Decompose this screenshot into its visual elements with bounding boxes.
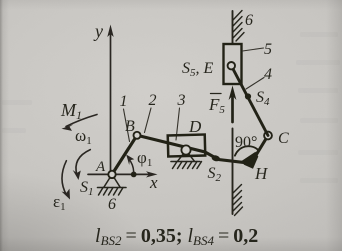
svg-text:C: C — [278, 130, 289, 147]
crank link 1 (A-B) — [112, 135, 137, 174]
dot S2 — [211, 155, 220, 163]
svg-text:y: y — [93, 21, 103, 41]
slider D pin support — [171, 153, 202, 169]
joint B — [134, 132, 141, 139]
dot on x-axis — [131, 172, 137, 178]
epsilon1 arrow — [62, 161, 71, 200]
svg-text:5: 5 — [264, 41, 272, 58]
label F5 — [208, 94, 225, 117]
bleedthrough smudges — [2, 32, 340, 183]
angle phi1 arc — [126, 155, 134, 173]
leader label 4 — [246, 78, 264, 90]
top guide wall 6 — [233, 11, 245, 45]
svg-text:1: 1 — [120, 93, 128, 110]
svg-text:H: H — [254, 164, 269, 183]
svg-text:90°: 90° — [235, 134, 257, 151]
joint E — [228, 62, 235, 69]
moment M1 arrow — [62, 115, 98, 131]
leader label 5 — [243, 48, 264, 51]
joint C — [264, 132, 272, 140]
link H-C — [251, 136, 268, 164]
link 4 (E-C) — [231, 66, 268, 136]
svg-text:2: 2 — [149, 92, 157, 109]
svg-text:D: D — [188, 117, 202, 136]
svg-text:B: B — [125, 118, 135, 135]
y-axis — [107, 25, 113, 176]
svg-text:4: 4 — [264, 66, 272, 83]
svg-text:x: x — [149, 173, 158, 192]
svg-text:6: 6 — [245, 12, 253, 29]
dot S4 — [245, 93, 251, 99]
right-angle arc at H — [235, 146, 259, 155]
force F5 arrow — [229, 86, 237, 123]
svg-text:A: A — [95, 159, 106, 175]
svg-text:S5, E: S5, E — [182, 60, 214, 79]
slider D pin — [181, 145, 190, 154]
link 2 (B-S2-H) — [137, 135, 251, 163]
svg-text:3: 3 — [177, 92, 186, 109]
slider D box — [168, 135, 206, 157]
slider 5 box — [224, 44, 242, 84]
joint H blob — [242, 152, 259, 169]
omega1 arrow — [73, 150, 91, 180]
svg-text:6: 6 — [108, 196, 116, 213]
pivot support at A — [98, 178, 127, 196]
bottom guide wall — [233, 129, 243, 216]
x-axis — [88, 171, 158, 177]
joint A — [108, 171, 115, 178]
